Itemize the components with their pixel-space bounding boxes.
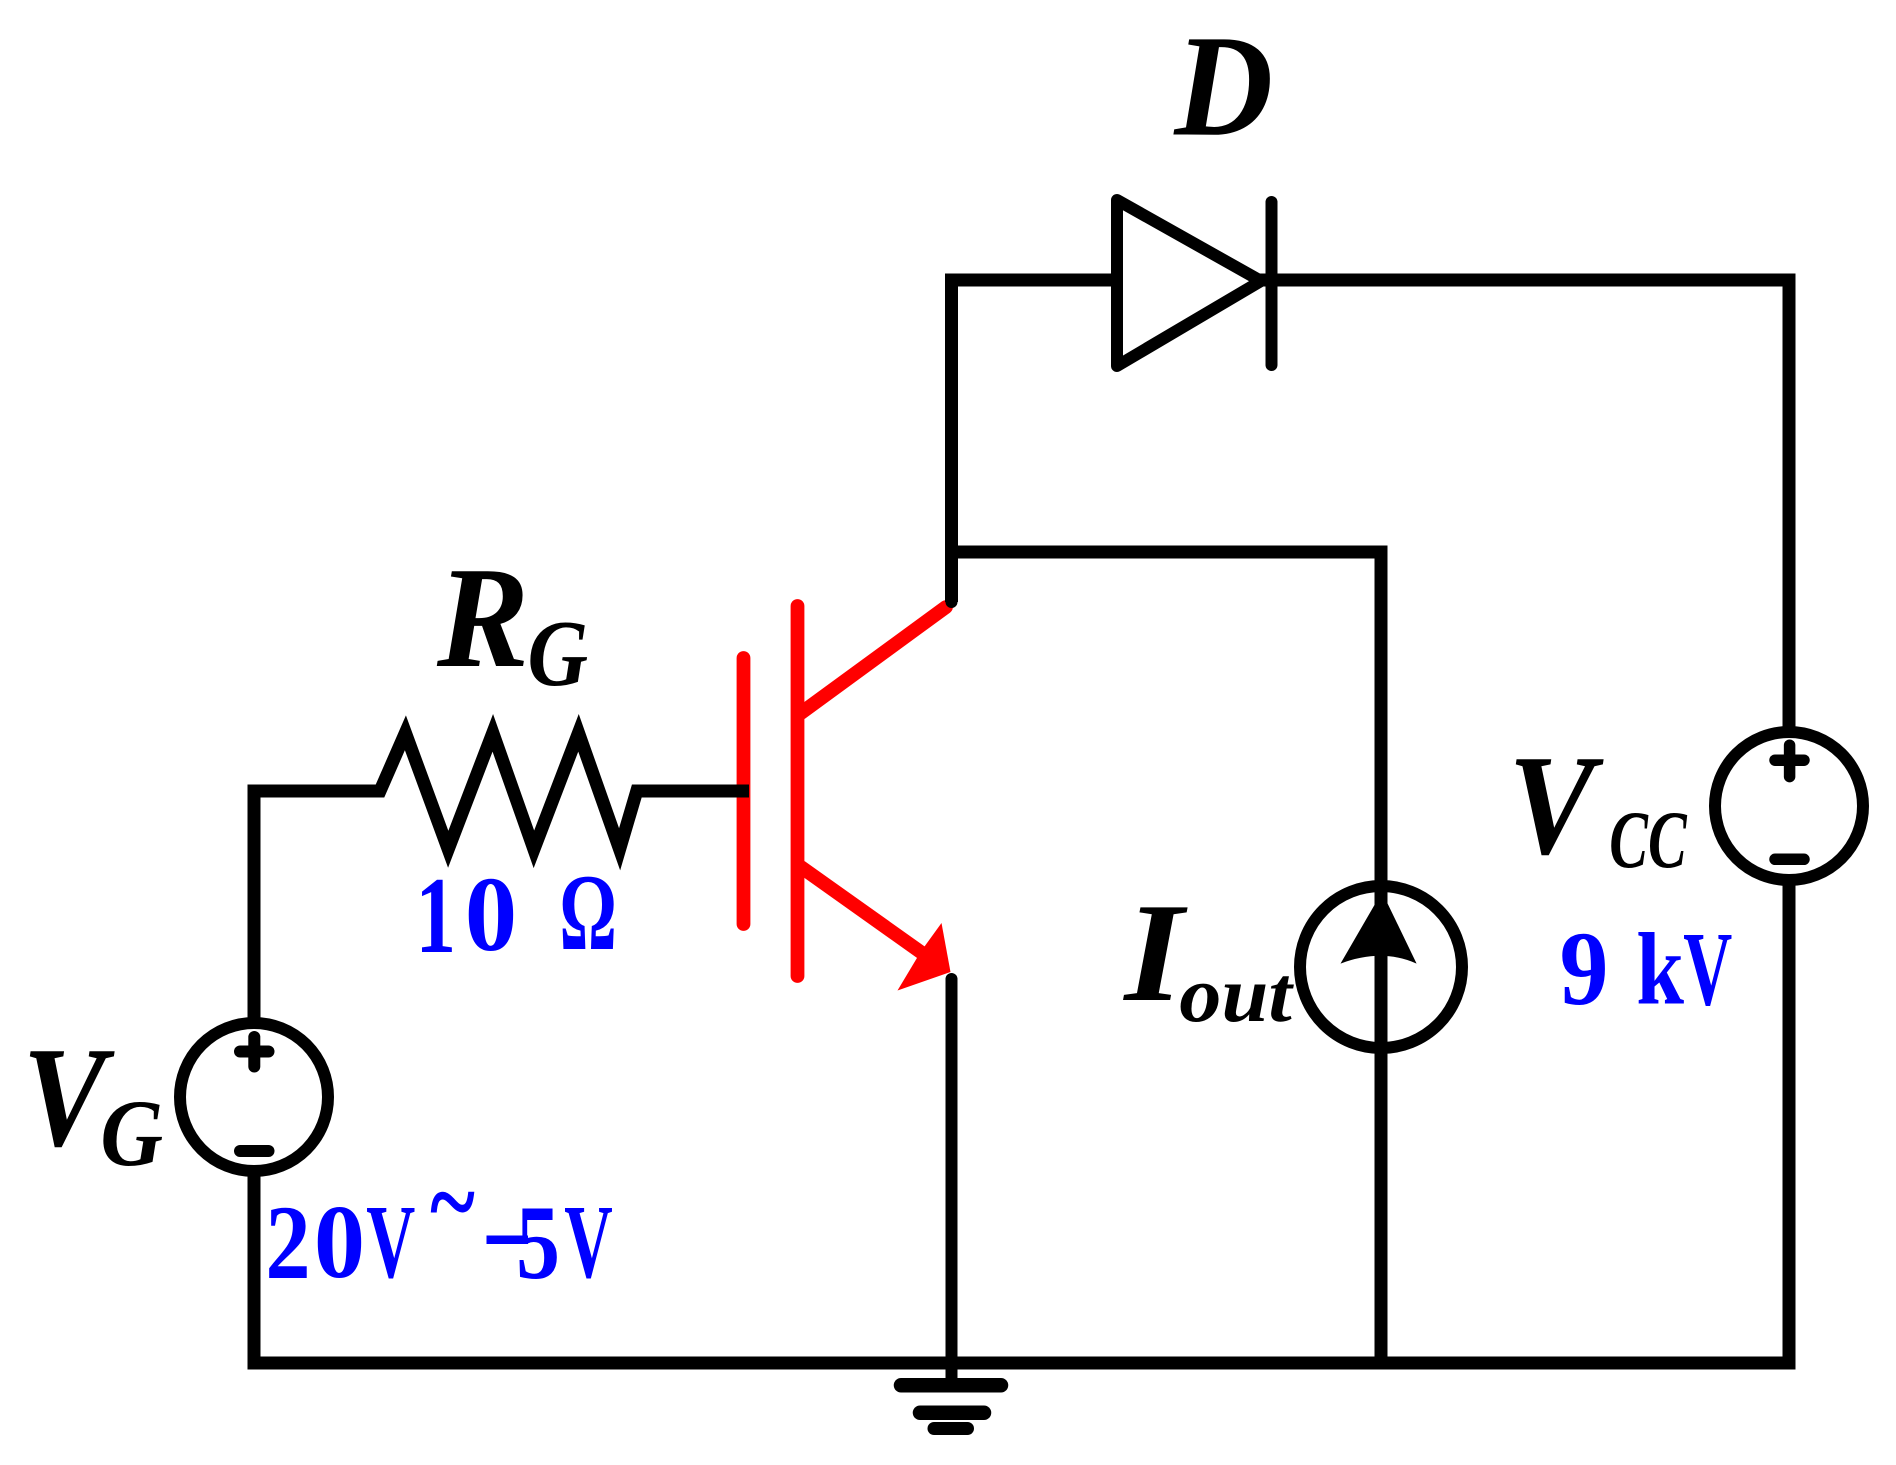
- svg-text:out: out: [1179, 951, 1294, 1039]
- svg-text:D: D: [1172, 5, 1273, 167]
- svg-text:0: 0: [465, 854, 517, 973]
- svg-text:G: G: [100, 1080, 163, 1186]
- svg-text:CC: CC: [1609, 796, 1687, 886]
- svg-text:R: R: [436, 537, 529, 698]
- svg-text:9: 9: [1560, 910, 1609, 1028]
- svg-text:2: 2: [265, 1184, 310, 1301]
- svg-text:Ω: Ω: [559, 852, 617, 972]
- svg-text:G: G: [528, 603, 589, 706]
- svg-text:k: k: [1636, 913, 1684, 1026]
- svg-text:V: V: [1508, 725, 1604, 884]
- svg-text:V: V: [366, 1186, 415, 1301]
- svg-text:V: V: [564, 1184, 612, 1299]
- svg-text:~: ~: [430, 1141, 475, 1263]
- svg-text:V: V: [1683, 912, 1732, 1029]
- svg-text:1: 1: [416, 854, 457, 975]
- svg-text:0: 0: [314, 1185, 365, 1300]
